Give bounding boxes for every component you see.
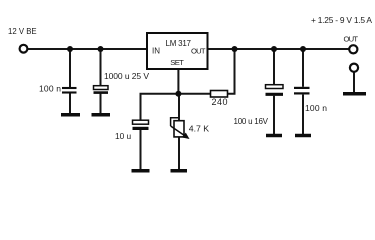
svg-text:1000 u 25 V: 1000 u 25 V xyxy=(104,71,149,81)
svg-text:12 V BE: 12 V BE xyxy=(8,27,37,36)
svg-text:100 n: 100 n xyxy=(39,84,61,94)
svg-text:LM 317: LM 317 xyxy=(166,39,192,48)
svg-text:10 u: 10 u xyxy=(115,131,132,141)
svg-text:240: 240 xyxy=(212,97,228,107)
svg-text:OUT: OUT xyxy=(191,46,206,55)
svg-text:OUT: OUT xyxy=(344,34,359,43)
svg-text:SET: SET xyxy=(170,58,184,67)
svg-text:+ 1.25 - 9 V 1.5 A: + 1.25 - 9 V 1.5 A xyxy=(311,15,372,25)
svg-text:100 u 16V: 100 u 16V xyxy=(234,117,269,126)
svg-text:IN: IN xyxy=(152,46,160,55)
svg-text:4.7 K: 4.7 K xyxy=(189,124,209,134)
svg-text:100 n: 100 n xyxy=(305,103,327,113)
